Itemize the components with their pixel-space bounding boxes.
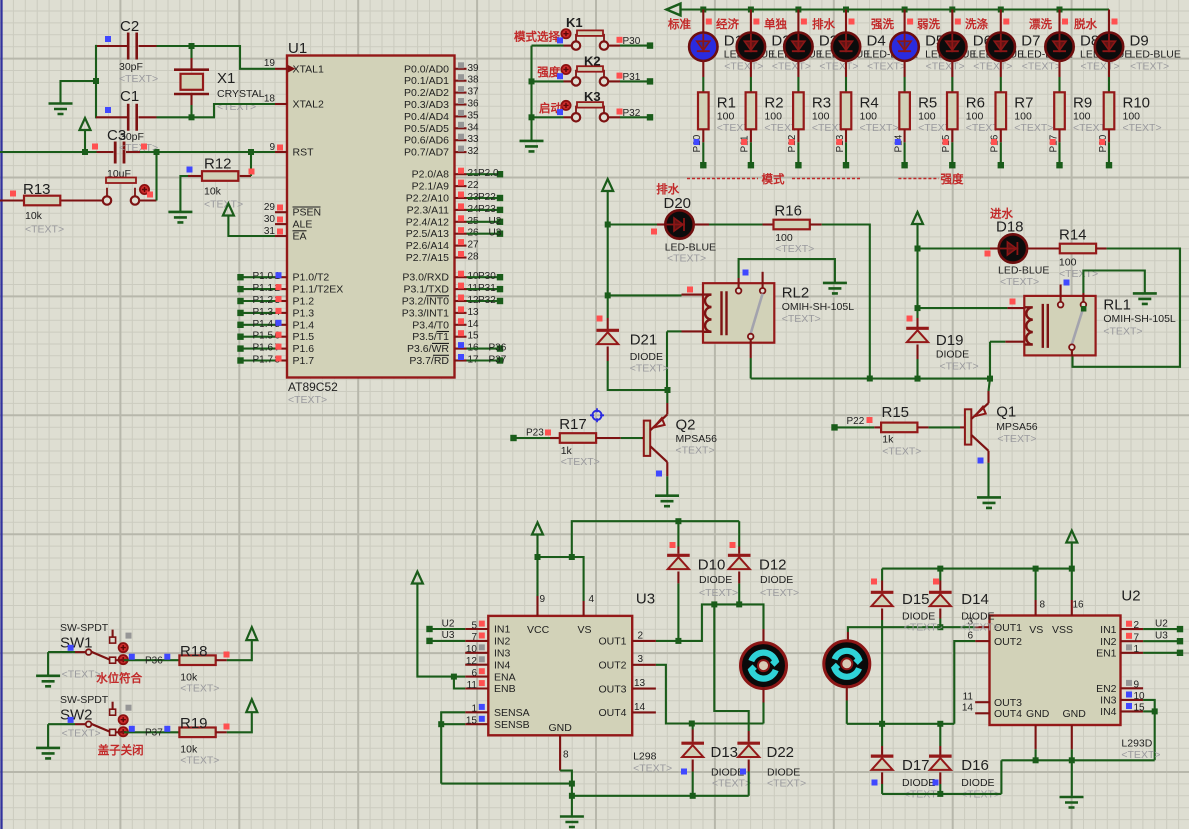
svg-text:P22: P22 xyxy=(847,416,865,427)
svg-text:EN2: EN2 xyxy=(1096,683,1117,695)
wires P1.0-P1.7 xyxy=(237,271,281,365)
svg-text:P3.0/RXD: P3.0/RXD xyxy=(402,272,449,284)
svg-text:<TEXT>: <TEXT> xyxy=(180,682,219,694)
U2 pins GND xyxy=(1001,725,1074,763)
svg-text:R3: R3 xyxy=(812,95,831,112)
svg-text:P0.5/AD5: P0.5/AD5 xyxy=(404,123,449,135)
label inlet chinese xyxy=(990,207,1013,221)
svg-text:水位符合: 水位符合 xyxy=(96,671,142,685)
svg-text:IN1: IN1 xyxy=(494,624,511,636)
svg-text:<TEXT>: <TEXT> xyxy=(860,122,899,134)
svg-text:31: 31 xyxy=(264,226,276,237)
wires U2 IN nets xyxy=(1143,618,1183,656)
svg-text:U3: U3 xyxy=(636,591,655,608)
svg-text:GND: GND xyxy=(1063,708,1087,720)
LED D7 xyxy=(987,10,1073,93)
svg-text:P1.2: P1.2 xyxy=(293,296,315,308)
svg-text:P0.0/AD0: P0.0/AD0 xyxy=(404,63,449,75)
svg-text:DIODE: DIODE xyxy=(699,574,732,586)
svg-text:P3.5/T1: P3.5/T1 xyxy=(412,331,449,343)
chip U2 body xyxy=(990,588,1141,726)
svg-text:标准: 标准 xyxy=(667,17,691,31)
capacitor C1 xyxy=(96,88,157,143)
svg-text:MPSA56: MPSA56 xyxy=(996,421,1038,433)
wire C2-C1 left leg xyxy=(95,45,97,119)
svg-text:K3: K3 xyxy=(584,89,601,104)
svg-text:37: 37 xyxy=(468,87,480,98)
svg-text:弱洗: 弱洗 xyxy=(917,17,940,31)
svg-text:<TEXT>: <TEXT> xyxy=(775,243,814,255)
svg-text:GND: GND xyxy=(1026,708,1050,720)
svg-text:R2: R2 xyxy=(764,95,783,112)
resistor R13 xyxy=(10,181,64,236)
wire K column xyxy=(529,46,535,141)
svg-text:RL2: RL2 xyxy=(782,285,810,302)
wire VCC VS feed xyxy=(535,518,740,601)
wire U2 bottom rail xyxy=(882,760,1001,794)
svg-text:P23: P23 xyxy=(478,204,496,215)
svg-text:<TEXT>: <TEXT> xyxy=(288,394,327,406)
svg-text:<TEXT>: <TEXT> xyxy=(767,778,806,790)
svg-text:8: 8 xyxy=(1040,599,1046,610)
svg-text:U2: U2 xyxy=(1155,618,1168,629)
terminal P22 xyxy=(831,416,874,431)
U1 left pin numbers xyxy=(264,58,283,237)
ground Q1 xyxy=(977,497,1001,508)
wire U3 ground rail xyxy=(572,795,749,797)
svg-text:<TEXT>: <TEXT> xyxy=(1000,276,1039,288)
svg-text:7: 7 xyxy=(471,632,477,643)
svg-text:34: 34 xyxy=(468,122,480,133)
U2 pin VSS xyxy=(1072,599,1084,615)
svg-text:11: 11 xyxy=(467,680,478,691)
LED D20 xyxy=(605,195,716,265)
ground K buttons xyxy=(520,141,544,152)
svg-text:<TEXT>: <TEXT> xyxy=(926,60,965,72)
terminal P23 xyxy=(510,427,551,441)
power arrow drain xyxy=(602,179,613,225)
svg-text:VSS: VSS xyxy=(1052,624,1073,636)
svg-text:RST: RST xyxy=(293,147,315,159)
label L293D xyxy=(1121,738,1160,761)
ground Q2 xyxy=(655,496,679,507)
svg-text:27: 27 xyxy=(468,240,480,251)
svg-text:U3: U3 xyxy=(442,630,455,641)
svg-text:19: 19 xyxy=(264,58,276,69)
label drain chinese xyxy=(656,182,679,196)
transistor Q2 xyxy=(644,390,717,496)
svg-text:XTAL2: XTAL2 xyxy=(293,99,324,111)
svg-text:D22: D22 xyxy=(767,744,795,761)
svg-text:P32: P32 xyxy=(478,295,496,306)
U2 right pin stubs xyxy=(1121,620,1146,713)
svg-text:L293D: L293D xyxy=(1121,738,1152,750)
svg-text:K1: K1 xyxy=(566,15,583,30)
diode D14 xyxy=(929,579,999,634)
svg-text:<TEXT>: <TEXT> xyxy=(973,60,1012,72)
svg-text:<TEXT>: <TEXT> xyxy=(1123,122,1162,134)
svg-text:13: 13 xyxy=(468,307,480,318)
resistor R3 xyxy=(787,92,851,168)
svg-text:IN4: IN4 xyxy=(1100,706,1117,718)
wire U3 OUT1 to motor xyxy=(656,601,764,644)
svg-text:漂洗: 漂洗 xyxy=(1029,17,1052,31)
svg-text:P1.4: P1.4 xyxy=(293,319,315,331)
svg-text:P1.0/T2: P1.0/T2 xyxy=(293,272,330,284)
svg-text:15: 15 xyxy=(466,716,478,727)
svg-text:DIODE: DIODE xyxy=(961,777,994,789)
svg-text:MPSA56: MPSA56 xyxy=(676,433,718,445)
svg-text:<TEXT>: <TEXT> xyxy=(1130,60,1169,72)
wire RL2 coil bottom xyxy=(667,331,682,390)
svg-text:P30: P30 xyxy=(623,36,641,47)
label P36 wire xyxy=(129,654,171,667)
svg-text:R14: R14 xyxy=(1059,226,1087,243)
svg-text:IN3: IN3 xyxy=(494,648,511,660)
svg-text:OUT2: OUT2 xyxy=(994,636,1022,648)
svg-text:P1.6: P1.6 xyxy=(253,343,274,354)
wires U2 IN3 IN4 xyxy=(1072,700,1158,760)
svg-text:K2: K2 xyxy=(584,54,601,69)
svg-text:<TEXT>: <TEXT> xyxy=(1014,122,1053,134)
resistor R1 xyxy=(692,92,756,168)
svg-text:D20: D20 xyxy=(664,195,692,212)
svg-text:P2.7/A15: P2.7/A15 xyxy=(406,252,449,264)
svg-text:IN3: IN3 xyxy=(1100,695,1117,707)
svg-text:2: 2 xyxy=(1134,620,1140,631)
chip U3 body xyxy=(488,591,655,736)
svg-text:1: 1 xyxy=(1134,644,1140,655)
svg-text:ALE: ALE xyxy=(293,219,313,231)
svg-text:<TEXT>: <TEXT> xyxy=(62,728,101,740)
chip U1 AT89C52 xyxy=(287,40,455,406)
U1 left pin stubs xyxy=(275,69,287,361)
svg-text:9: 9 xyxy=(269,142,275,153)
svg-text:<TEXT>: <TEXT> xyxy=(667,253,706,265)
svg-text:<TEXT>: <TEXT> xyxy=(867,60,906,72)
svg-text:<TEXT>: <TEXT> xyxy=(782,313,821,325)
U1 left pin names xyxy=(293,63,344,367)
U3 pin VCC xyxy=(538,594,546,616)
svg-text:P2.1/A9: P2.1/A9 xyxy=(412,181,450,193)
svg-text:P0.3/AD3: P0.3/AD3 xyxy=(404,99,449,111)
U3 pin GND xyxy=(560,735,575,799)
svg-text:SENSB: SENSB xyxy=(494,719,530,731)
wire XTAL1 net xyxy=(157,43,276,69)
svg-text:DIODE: DIODE xyxy=(902,777,935,789)
svg-text:强洗: 强洗 xyxy=(871,17,894,31)
svg-text:10k: 10k xyxy=(204,186,222,198)
svg-text:<TEXT>: <TEXT> xyxy=(772,60,811,72)
svg-text:<TEXT>: <TEXT> xyxy=(204,199,243,211)
svg-text:R13: R13 xyxy=(23,181,51,198)
svg-text:P1.1/T2EX: P1.1/T2EX xyxy=(293,284,344,296)
svg-text:模式: 模式 xyxy=(762,172,785,186)
LED D3 xyxy=(784,10,870,93)
U1 right pin stubs xyxy=(455,69,467,361)
U1 right pin numbers xyxy=(458,62,479,365)
diode D17 xyxy=(871,724,943,801)
svg-text:P36: P36 xyxy=(145,655,163,666)
svg-text:P1.3: P1.3 xyxy=(253,307,274,318)
svg-text:<TEXT>: <TEXT> xyxy=(1022,60,1061,72)
svg-text:38: 38 xyxy=(468,75,480,86)
svg-text:4: 4 xyxy=(589,594,595,605)
resistor R14 xyxy=(1059,226,1107,280)
resistor R17 xyxy=(550,416,644,468)
labels LED row chinese xyxy=(667,17,1118,31)
svg-text:8: 8 xyxy=(563,750,569,761)
transistor Q1 xyxy=(965,379,1038,498)
svg-text:P2.6/A14: P2.6/A14 xyxy=(406,240,449,252)
svg-text:ENB: ENB xyxy=(494,683,516,695)
svg-text:10k: 10k xyxy=(25,210,43,222)
svg-text:P1.1: P1.1 xyxy=(253,283,274,294)
svg-text:OUT2: OUT2 xyxy=(598,660,626,672)
svg-text:<TEXT>: <TEXT> xyxy=(217,101,256,113)
svg-text:D16: D16 xyxy=(961,757,989,774)
svg-text:6: 6 xyxy=(471,668,477,679)
wire U2 OUT1 to motor xyxy=(848,624,975,632)
svg-text:D7: D7 xyxy=(1021,33,1040,50)
svg-text:<TEXT>: <TEXT> xyxy=(630,363,669,375)
svg-text:PSEN: PSEN xyxy=(293,207,322,219)
wire U2 OUT2 xyxy=(954,641,975,724)
svg-text:<TEXT>: <TEXT> xyxy=(180,754,219,766)
U3 pin VS xyxy=(584,594,595,616)
svg-text:30pF: 30pF xyxy=(119,61,143,73)
svg-text:ENA: ENA xyxy=(494,671,516,683)
svg-text:<TEXT>: <TEXT> xyxy=(712,778,751,790)
svg-text:D9: D9 xyxy=(1130,33,1149,50)
svg-text:U2: U2 xyxy=(442,618,455,629)
resistor R15 xyxy=(874,404,965,458)
resistor R9 xyxy=(1048,92,1112,168)
svg-text:经济: 经济 xyxy=(716,17,739,31)
svg-text:<TEXT>: <TEXT> xyxy=(1103,326,1142,338)
switch SW2 xyxy=(36,694,179,758)
svg-text:100: 100 xyxy=(1059,256,1077,268)
motor washer 2 xyxy=(824,632,870,724)
LED D6 xyxy=(938,10,1024,93)
svg-text:D4: D4 xyxy=(867,33,886,50)
svg-text:P37: P37 xyxy=(489,355,507,366)
svg-text:IN4: IN4 xyxy=(494,659,511,671)
wire coil top RL1 xyxy=(915,249,1008,312)
svg-text:11: 11 xyxy=(963,692,974,703)
svg-text:<TEXT>: <TEXT> xyxy=(819,60,858,72)
wire U2 supply rail xyxy=(882,566,1075,600)
svg-text:<TEXT>: <TEXT> xyxy=(760,587,799,599)
svg-text:VS: VS xyxy=(1029,624,1043,636)
svg-text:<TEXT>: <TEXT> xyxy=(676,445,715,457)
svg-text:P1.3: P1.3 xyxy=(293,307,315,319)
svg-text:XTAL1: XTAL1 xyxy=(293,63,324,75)
svg-text:P2.2/A10: P2.2/A10 xyxy=(406,193,449,205)
svg-text:U1: U1 xyxy=(288,40,307,57)
push button K2 xyxy=(532,54,654,86)
svg-text:<TEXT>: <TEXT> xyxy=(1121,749,1160,761)
svg-text:D21: D21 xyxy=(630,332,658,349)
power arrow EA xyxy=(223,204,275,237)
svg-text:P0.7/AD7: P0.7/AD7 xyxy=(404,147,449,159)
svg-text:R4: R4 xyxy=(860,95,879,112)
LED D5 xyxy=(890,10,976,93)
svg-text:P2.0/A8: P2.0/A8 xyxy=(412,169,450,181)
LED D4 xyxy=(832,10,918,93)
svg-text:P2.5/A13: P2.5/A13 xyxy=(406,228,449,240)
svg-text:P1.6: P1.6 xyxy=(293,343,315,355)
svg-text:P23: P23 xyxy=(526,427,544,438)
svg-text:<TEXT>: <TEXT> xyxy=(1081,60,1120,72)
diode D22 xyxy=(714,604,806,795)
svg-text:15: 15 xyxy=(468,331,480,342)
marker crosshair xyxy=(590,408,604,422)
svg-text:P31: P31 xyxy=(623,72,641,83)
svg-text:29: 29 xyxy=(264,202,276,213)
U3 inside labels xyxy=(494,624,627,734)
svg-text:R18: R18 xyxy=(180,643,208,660)
svg-text:<TEXT>: <TEXT> xyxy=(561,456,600,468)
svg-text:P32: P32 xyxy=(623,108,641,119)
svg-text:D17: D17 xyxy=(902,757,930,774)
svg-text:3: 3 xyxy=(638,654,644,665)
wire RST net xyxy=(0,149,275,155)
svg-text:13: 13 xyxy=(634,678,646,689)
svg-text:P1.7: P1.7 xyxy=(293,355,315,367)
svg-text:OUT3: OUT3 xyxy=(598,683,626,695)
power arrow R18 xyxy=(227,627,257,660)
svg-text:10: 10 xyxy=(466,644,478,655)
svg-text:OMIH-SH-105L: OMIH-SH-105L xyxy=(782,301,855,313)
svg-text:DIODE: DIODE xyxy=(936,349,969,361)
svg-text:P1.7: P1.7 xyxy=(253,355,274,366)
wire RL1 coil bottom xyxy=(987,342,1005,382)
svg-text:9: 9 xyxy=(540,594,546,605)
LED D1 xyxy=(689,10,775,93)
svg-text:U2: U2 xyxy=(1121,588,1140,605)
resistor R5 xyxy=(893,92,957,168)
ground relay RL2 xyxy=(823,283,847,294)
push button K3 xyxy=(532,89,654,122)
resistor R4 xyxy=(835,92,899,168)
svg-text:P0.6/AD6: P0.6/AD6 xyxy=(404,135,449,147)
svg-text:LED-BLUE: LED-BLUE xyxy=(998,265,1049,277)
wire RL2 contact xyxy=(751,358,870,379)
svg-text:X1: X1 xyxy=(217,70,235,87)
LED D8 xyxy=(1045,10,1131,93)
svg-text:18: 18 xyxy=(264,94,276,105)
svg-text:<TEXT>: <TEXT> xyxy=(62,669,101,681)
svg-text:SENSA: SENSA xyxy=(494,707,530,719)
svg-text:<TEXT>: <TEXT> xyxy=(724,60,763,72)
capacitor C2 xyxy=(96,18,158,85)
svg-text:P3.4/T0: P3.4/T0 xyxy=(412,319,449,331)
svg-text:16: 16 xyxy=(1073,599,1085,610)
svg-text:30: 30 xyxy=(264,214,276,225)
LED D18 xyxy=(915,219,1060,289)
ground branch wire xyxy=(61,78,100,104)
svg-text:R15: R15 xyxy=(882,404,910,421)
blue marker C2 xyxy=(105,36,111,42)
svg-text:<TEXT>: <TEXT> xyxy=(633,762,672,774)
svg-text:R5: R5 xyxy=(918,95,937,112)
wires U1 right nets xyxy=(467,168,507,365)
label P37 wire xyxy=(129,726,171,739)
svg-text:AT89C52: AT89C52 xyxy=(288,380,338,394)
svg-text:<TEXT>: <TEXT> xyxy=(699,587,738,599)
ground relay RL1 xyxy=(1133,293,1157,304)
wires U3 IN1 IN2 xyxy=(426,618,465,644)
svg-text:U3: U3 xyxy=(489,228,502,239)
svg-text:IN2: IN2 xyxy=(1100,636,1117,648)
resistor R18 xyxy=(179,643,229,694)
svg-text:D12: D12 xyxy=(759,557,787,574)
crystal X1 xyxy=(174,46,265,117)
svg-text:<TEXT>: <TEXT> xyxy=(882,445,921,457)
svg-text:D19: D19 xyxy=(936,332,964,349)
svg-text:R7: R7 xyxy=(1014,95,1033,112)
power arrow R19 xyxy=(227,699,257,732)
svg-text:脱水: 脱水 xyxy=(1074,17,1097,31)
svg-text:RL1: RL1 xyxy=(1103,297,1131,314)
svg-text:SW-SPDT: SW-SPDT xyxy=(60,622,109,634)
wire R16 to contact xyxy=(822,225,873,382)
svg-text:P1.5: P1.5 xyxy=(253,331,274,342)
svg-text:LED-BLUE: LED-BLUE xyxy=(1130,49,1181,61)
switch SW1 xyxy=(36,622,179,686)
wire XTAL2 net xyxy=(157,104,276,120)
svg-text:C2: C2 xyxy=(120,18,139,35)
svg-text:P3.6/WR: P3.6/WR xyxy=(407,343,449,355)
svg-text:<TEXT>: <TEXT> xyxy=(960,622,999,634)
svg-text:Q2: Q2 xyxy=(676,417,696,434)
diode D10 xyxy=(667,521,738,641)
label L298 xyxy=(633,751,672,775)
svg-text:R19: R19 xyxy=(180,715,208,732)
push button K1 xyxy=(514,15,653,50)
wire R14 to contact xyxy=(1073,249,1181,367)
power arrow U3 enable xyxy=(412,572,454,677)
svg-text:R9: R9 xyxy=(1073,95,1092,112)
resistor R19 xyxy=(179,715,229,766)
svg-text:R16: R16 xyxy=(774,203,802,220)
svg-text:VCC: VCC xyxy=(527,624,550,636)
svg-text:OUT1: OUT1 xyxy=(598,636,626,648)
svg-text:模式选择: 模式选择 xyxy=(514,29,560,43)
svg-text:DIODE: DIODE xyxy=(630,351,663,363)
svg-text:GND: GND xyxy=(549,722,573,734)
svg-text:P0.2/AD2: P0.2/AD2 xyxy=(404,87,449,99)
resistor R6 xyxy=(941,92,1005,168)
svg-text:SW-SPDT: SW-SPDT xyxy=(60,694,109,706)
svg-text:单独: 单独 xyxy=(764,17,787,31)
wire RL1 grounded contact xyxy=(1083,271,1144,294)
U2 pin VS xyxy=(1036,599,1046,615)
dashed separator mode xyxy=(687,172,862,186)
svg-text:28: 28 xyxy=(468,252,480,263)
svg-text:P31: P31 xyxy=(478,283,496,294)
resistor R7 xyxy=(990,92,1054,168)
power arrow inlet xyxy=(912,212,923,249)
resistor R2 xyxy=(740,92,804,168)
svg-text:L298: L298 xyxy=(633,751,657,763)
svg-text:32: 32 xyxy=(468,146,480,157)
U3 right pin stubs xyxy=(632,630,656,713)
svg-text:P36: P36 xyxy=(489,343,507,354)
LED D9 xyxy=(1095,10,1181,93)
svg-text:Q1: Q1 xyxy=(996,404,1016,421)
